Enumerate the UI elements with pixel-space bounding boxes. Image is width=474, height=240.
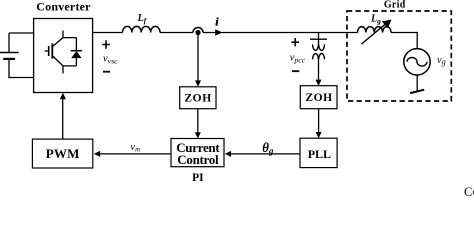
label + vpcc [291, 38, 299, 46]
ground bar [410, 90, 424, 93]
svg-text:ZOH: ZOH [305, 92, 332, 104]
diode D1 branch wires [63, 38, 76, 66]
Lg variable arrowhead [382, 20, 392, 29]
svg-text:C: C [464, 185, 472, 198]
Current Control box [171, 139, 224, 167]
arrow into Current Control right [225, 151, 231, 157]
svg-text:Grid: Grid [384, 0, 406, 10]
diode D1 triangle [71, 51, 81, 58]
wire ZOH2 to PLL [318, 109, 320, 133]
converter box [34, 19, 93, 93]
wire node to pcc [203, 32, 358, 34]
label - vpcc [292, 70, 299, 72]
arrow into converter [60, 93, 66, 99]
IGBT Q1 emitter lead [52, 56, 63, 74]
svg-text:PWM: PWM [46, 146, 80, 161]
IGBT Q1 gate bar [48, 46, 50, 56]
arrow into Current Control top [195, 132, 201, 138]
node junction dot [195, 30, 200, 35]
IGBT Q1 body bar [51, 43, 53, 58]
wire dc top [9, 33, 34, 53]
node sensor bump [193, 28, 203, 33]
PT sensor vpcc: stem top [318, 33, 320, 40]
diode D1 cathode bar [71, 50, 82, 52]
wire ZOH1 to Current Control [197, 109, 199, 133]
source vg sine [407, 58, 427, 67]
wire node to ZOH1 [197, 35, 199, 81]
wire PT to ZOH2 [318, 60, 320, 81]
wire dc bottom [9, 59, 34, 78]
label + vvsc [102, 40, 110, 48]
ZOH1 box [180, 87, 216, 109]
battery V1 long plate [0, 52, 19, 54]
source vg circle [404, 49, 430, 75]
wire PWM to converter [62, 99, 64, 140]
svg-text:Converter: Converter [36, 0, 91, 13]
PT sensor bar [310, 38, 327, 40]
label - vvsc [103, 71, 110, 73]
PLL box [300, 138, 337, 167]
wire Lg to source [391, 33, 417, 49]
wire PLL to Current Control [231, 153, 301, 155]
IGBT Q1 gate lead [45, 50, 49, 52]
svg-text:ZOH: ZOH [184, 93, 211, 105]
PWM box [32, 139, 92, 168]
svg-text:PLL: PLL [308, 147, 331, 161]
wire source to ground [416, 75, 418, 92]
inductor Lg [358, 27, 392, 33]
IGBT Q1 collector lead [52, 31, 63, 47]
PT sensor lower winding [313, 54, 325, 60]
wire Lf to node [160, 32, 193, 34]
grid dashed box [347, 11, 451, 101]
battery V1 short plate [3, 58, 15, 60]
Lg variable arrow line [362, 23, 387, 44]
wire converter output [93, 32, 123, 34]
arrow into PLL [316, 132, 322, 138]
svg-text:PI: PI [192, 172, 204, 184]
arrow into ZOH1 [195, 80, 201, 86]
current arrow i [215, 29, 222, 36]
inductor Lf [123, 26, 161, 32]
ZOH2 box [300, 86, 337, 109]
wire Current Control to PWM [100, 153, 172, 155]
svg-text:Control: Control [177, 152, 219, 167]
arrow into PWM [94, 151, 100, 157]
PT sensor upper winding [313, 39, 325, 50]
arrow into ZOH2 [316, 80, 322, 86]
